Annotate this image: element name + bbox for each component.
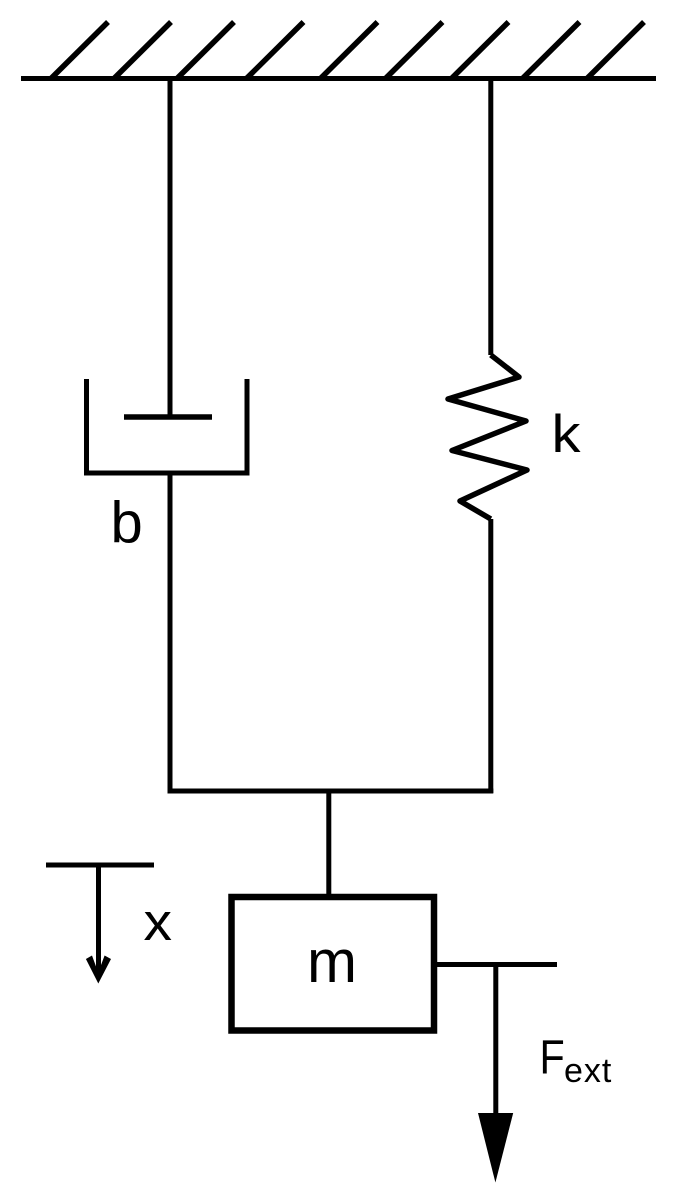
Fext arrowhead bbox=[478, 1113, 513, 1183]
ceiling hatch 6 bbox=[386, 22, 443, 78]
ceiling hatch 8 bbox=[523, 22, 580, 78]
x arrowhead bbox=[86, 956, 111, 984]
wire: spring lower rod bbox=[488, 519, 493, 793]
ceiling hatch 3 bbox=[178, 22, 235, 78]
ceiling hatch 4 bbox=[247, 22, 304, 78]
svg-text:m: m bbox=[307, 928, 357, 995]
svg-text:F: F bbox=[540, 1031, 565, 1085]
ceiling hatch 2 bbox=[115, 22, 172, 78]
ceiling hatch 9 bbox=[588, 22, 645, 78]
wire: mass right stub bbox=[437, 962, 557, 967]
ceiling hatch 1 bbox=[52, 22, 109, 78]
x reference datum bar bbox=[46, 863, 154, 868]
Fext arrow shaft bbox=[493, 965, 498, 1116]
svg-text:ext: ext bbox=[564, 1052, 612, 1090]
wire: bottom connector bbox=[168, 789, 494, 794]
wire: damper upper rod bbox=[168, 78, 173, 417]
spring k zigzag bbox=[448, 355, 527, 519]
wire: damper lower rod bbox=[168, 471, 173, 793]
wire: mass rod bbox=[326, 791, 331, 897]
mass m box bbox=[232, 897, 435, 1031]
svg-text:k: k bbox=[552, 405, 582, 464]
wire: spring upper rod bbox=[488, 78, 493, 355]
damper cup bbox=[87, 379, 248, 473]
damper piston plate bbox=[124, 414, 212, 420]
ceiling hatch 5 bbox=[321, 22, 378, 78]
svg-text:x: x bbox=[144, 893, 173, 952]
x arrow shaft bbox=[96, 865, 101, 975]
svg-text:b: b bbox=[111, 491, 143, 556]
ceiling hatch 7 bbox=[452, 22, 509, 78]
ceiling line bbox=[21, 76, 656, 81]
